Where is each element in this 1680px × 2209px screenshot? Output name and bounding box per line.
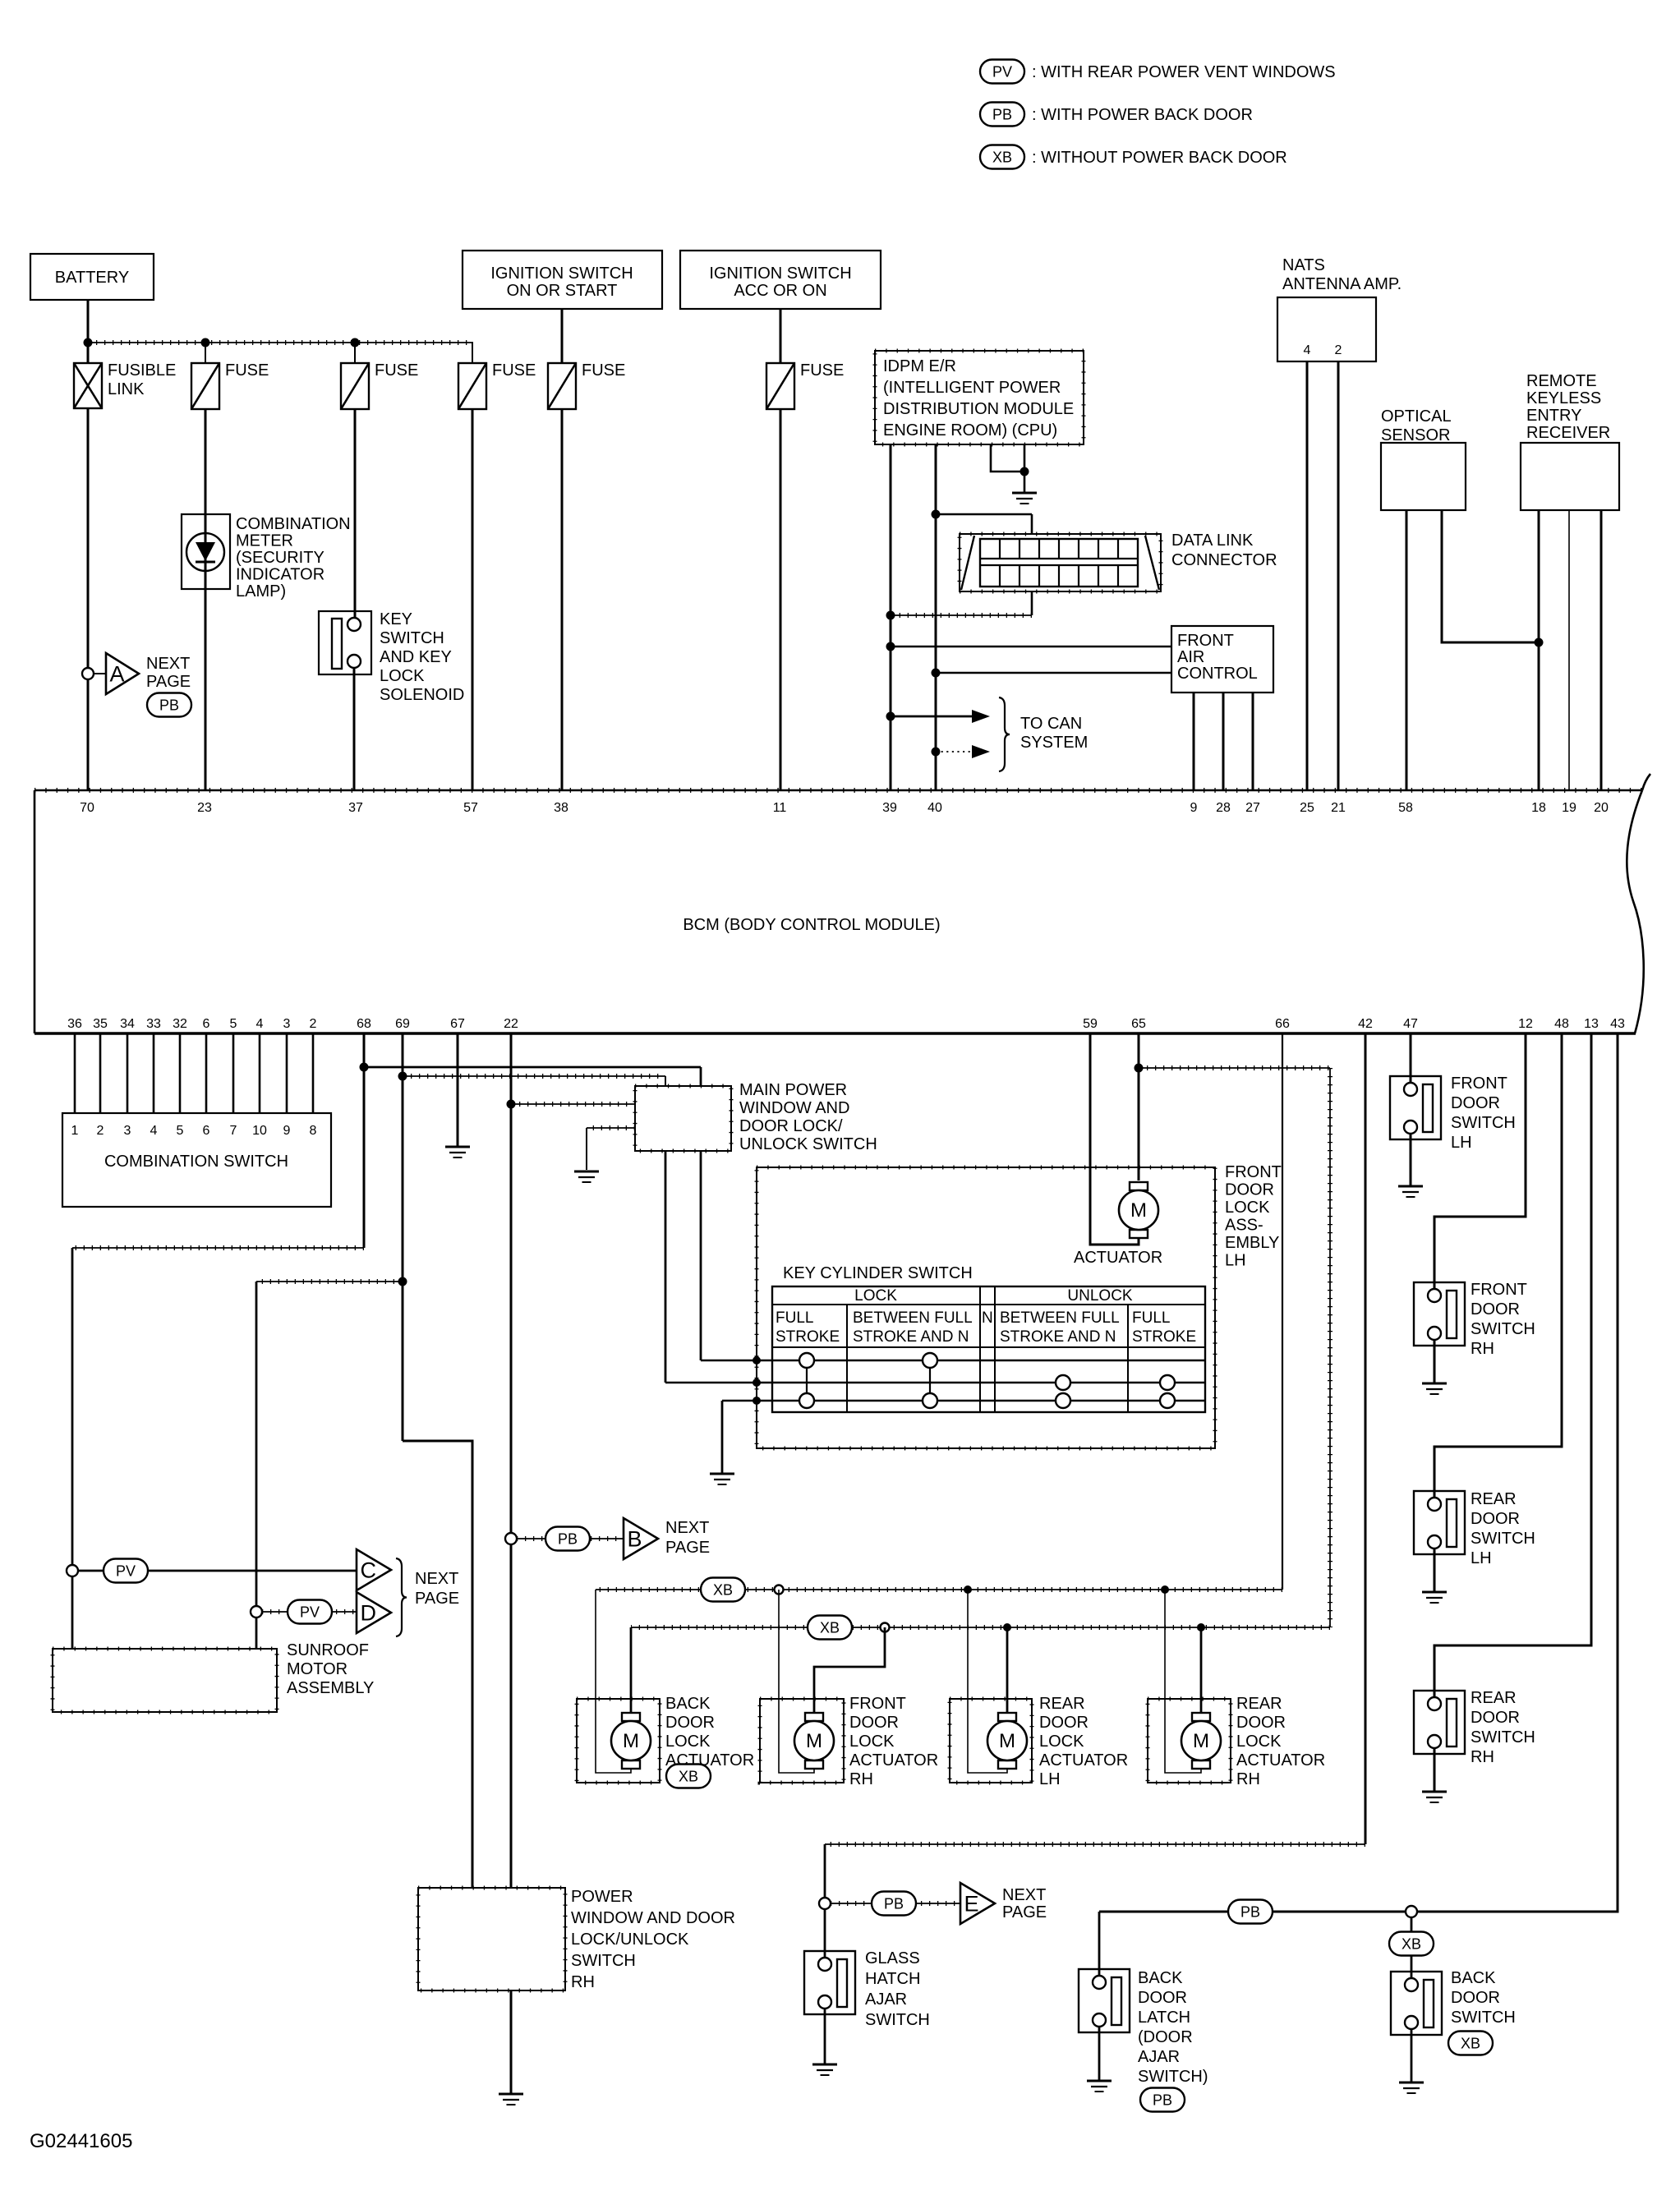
wire net pin68 [363,1033,366,1248]
wire BCM pin43 to back door row [1099,1033,1618,1912]
combination switch box [62,1113,331,1207]
svg-text:4: 4 [1304,343,1311,357]
svg-text:9: 9 [1190,801,1198,815]
wire fuse4 to BCM pin 38 [561,409,564,790]
svg-text:LH: LH [1471,1549,1492,1567]
svg-text:DOOR: DOOR [1471,1300,1520,1318]
wire fuse5 to BCM pin 11 [780,409,782,790]
svg-text:WINDOW AND DOOR: WINDOW AND DOOR [571,1909,735,1927]
data link connector [960,534,1161,591]
wire key cylinder row1 [700,1151,702,1360]
wire rear door switch LH to ground [1434,1549,1436,1592]
svg-text:PB: PB [558,1531,578,1548]
svg-text:LH: LH [1039,1770,1061,1788]
oval PV on D row [288,1600,332,1624]
to can system arrow 2 dashed [936,751,972,752]
svg-text:: WITHOUT POWER BACK DOOR: : WITHOUT POWER BACK DOOR [1032,149,1287,167]
svg-text:KEY CYLINDER SWITCH: KEY CYLINDER SWITCH [783,1264,973,1282]
svg-text:67: 67 [450,1017,465,1031]
oval XB back door switch feed [1389,1932,1434,1956]
wire front air control to BCM pin 28 [1222,693,1225,790]
sunroof motor assembly box [53,1649,277,1712]
wire pin69 branch to sunroof [255,1282,258,1649]
fuse F5 [766,363,794,409]
svg-text:9: 9 [283,1124,291,1138]
svg-text:ASSEMBLY: ASSEMBLY [287,1679,374,1697]
fuse F1 [191,363,219,409]
oval XB back door actuator [666,1765,711,1788]
wire key switch to BCM pin 37 [353,668,356,790]
wire down to back door latch [1098,1912,1101,1977]
wire pin40 to data link connector [932,510,941,519]
svg-text:COMBINATION: COMBINATION [236,515,351,533]
svg-text:MAIN POWER: MAIN POWER [739,1081,847,1099]
svg-text:6: 6 [203,1017,210,1031]
svg-text:10: 10 [252,1124,267,1138]
wire to triangle E [831,1903,960,1904]
fuse F3 [458,363,486,409]
bus wire from battery to fuse row [88,342,473,343]
wire pin65 dotted branch to XB row2 [1139,1067,1330,1069]
svg-text:38: 38 [554,801,568,815]
svg-text:7: 7 [230,1124,237,1138]
svg-text:LAMP): LAMP) [236,582,286,601]
svg-text:DATA LINK: DATA LINK [1171,532,1254,550]
motor actuator front door LH [1130,1182,1148,1190]
svg-text:ENGINE ROOM) (CPU): ENGINE ROOM) (CPU) [883,421,1057,439]
svg-text:SWITCH: SWITCH [1451,2009,1516,2027]
wire data link connector to pin39 line [1031,591,1033,615]
svg-text:(INTELLIGENT POWER: (INTELLIGENT POWER [883,379,1061,397]
battery box [30,254,154,300]
svg-text:RH: RH [571,1973,595,1991]
rear door lock actuator RH box [1148,1699,1231,1783]
svg-text:RH: RH [1471,1748,1494,1766]
rear door lock actuator LH box [950,1699,1032,1783]
key cylinder switch table [772,1286,1205,1412]
junction dots XB row1 [1161,1585,1169,1594]
key cylinder contacts unlock full [1160,1375,1175,1390]
to can system arrow 1 [886,712,895,721]
svg-text:STROKE: STROKE [776,1328,840,1346]
back door latch switch [1079,1969,1130,2032]
wire XB row2 into back door actuator motor top [630,1627,633,1713]
svg-text:4: 4 [150,1124,158,1138]
svg-text:POWER: POWER [571,1888,633,1906]
front air control box [1171,626,1273,693]
svg-text:13: 13 [1584,1017,1599,1031]
svg-text:AJAR: AJAR [1138,2048,1180,2066]
svg-text:NEXT: NEXT [415,1570,458,1588]
svg-text:BETWEEN FULL: BETWEEN FULL [1000,1309,1120,1327]
svg-text:SWITCH: SWITCH [865,2011,930,2029]
wire rear RH actuator top feed [1200,1627,1203,1713]
oval PV on C row [104,1559,148,1583]
svg-text:: WITH POWER BACK DOOR: : WITH POWER BACK DOOR [1032,106,1253,124]
svg-text:OPTICAL: OPTICAL [1381,407,1452,426]
BCM body control module box [35,789,1642,792]
svg-text:LH: LH [1225,1252,1246,1270]
wire pin68 branch down-left to sunroof [71,1248,74,1649]
svg-text:SWITCH: SWITCH [571,1952,636,1970]
ground glass hatch switch [812,2064,837,2066]
ground front door switch RH [1422,1383,1447,1385]
wire RKE to BCM pin 20 [1600,510,1603,790]
junction dot fuse2 bus [351,338,360,347]
ground pin67 [445,1146,470,1148]
rear door switch LH [1414,1491,1465,1554]
wire front air control to BCM pin 27 [1252,693,1254,790]
svg-text:XB: XB [1461,2036,1480,2052]
ignition switch on/start box [463,251,662,309]
svg-text:ON OR START: ON OR START [507,282,618,300]
back door lock actuator box [577,1699,660,1783]
IDPM E/R box [875,351,1084,444]
svg-text:AJAR: AJAR [865,1990,907,2009]
ground key cylinder switch [710,1473,734,1475]
svg-text:METER: METER [236,532,293,550]
front door lock assembly LH box [757,1167,1215,1448]
open circle back door switch tap [1406,1906,1417,1917]
svg-text:BACK: BACK [1138,1969,1183,1987]
svg-text:SWITCH: SWITCH [1471,1530,1535,1548]
triangle A next page [106,653,139,694]
svg-text:SWITCH): SWITCH) [1138,2068,1208,2086]
optical sensor box [1381,443,1466,510]
wire key cylinder row3 from ground [721,1401,724,1474]
svg-text:23: 23 [197,801,212,815]
svg-text:M: M [1193,1730,1209,1752]
motor rear door lock actuator LH [998,1713,1016,1721]
wire fuse2 to key switch [354,409,357,619]
svg-text:BACK: BACK [1451,1969,1496,1987]
ground main power window switch [574,1171,599,1173]
svg-text:57: 57 [463,801,478,815]
svg-text:XB: XB [820,1620,840,1636]
svg-text:PV: PV [992,64,1012,81]
svg-text:12: 12 [1518,1017,1533,1031]
remote keyless entry receiver box [1521,443,1619,510]
svg-text:TO CAN: TO CAN [1020,715,1082,733]
svg-text:HATCH: HATCH [865,1970,920,1988]
wire battery to bus [87,300,90,363]
wire glass hatch switch to ground [824,2009,826,2064]
svg-text:BETWEEN FULL: BETWEEN FULL [853,1309,973,1327]
svg-text:COMBINATION SWITCH: COMBINATION SWITCH [104,1153,288,1171]
svg-text:FUSE: FUSE [375,361,418,380]
svg-text:FRONT: FRONT [849,1695,906,1713]
triangle B next page [624,1518,658,1559]
svg-text:35: 35 [93,1017,108,1031]
svg-text:59: 59 [1083,1017,1098,1031]
svg-text:STROKE AND N: STROKE AND N [1000,1328,1116,1346]
svg-text:PB: PB [884,1896,904,1912]
svg-text:69: 69 [395,1017,410,1031]
wire pin39 to front air control [886,642,895,651]
wire fuse1 to combination meter [205,409,207,790]
svg-text:PB: PB [159,697,179,714]
open circle XB row2 [881,1623,890,1632]
svg-text:NEXT: NEXT [1002,1886,1046,1904]
triangle E next page [960,1883,995,1924]
ground IDPM [1012,492,1037,495]
back door switch [1391,1972,1442,2035]
svg-text:4: 4 [256,1017,264,1031]
junction dots assembly border [753,1356,761,1365]
svg-text:EMBLY: EMBLY [1225,1234,1279,1252]
combination meter box (security indicator lamp) [182,514,230,589]
svg-text:NEXT: NEXT [146,655,190,673]
svg-text:3: 3 [124,1124,131,1138]
svg-text:(DOOR: (DOOR [1138,2028,1193,2046]
svg-text:INDICATOR: INDICATOR [236,566,324,584]
svg-text:LOCK: LOCK [1039,1733,1084,1751]
svg-text:UNLOCK SWITCH: UNLOCK SWITCH [739,1135,877,1153]
svg-text:CONTROL: CONTROL [1177,665,1258,683]
svg-text:LOCK: LOCK [665,1733,711,1751]
wire optical sensor to BCM pin 58 [1406,510,1408,790]
svg-text:2: 2 [1335,343,1342,357]
wire rear LH actuator top feed [1006,1627,1009,1713]
wire BCM pin66 to XB row1 [1282,1033,1283,1590]
svg-text:GLASS: GLASS [865,1949,920,1967]
svg-text:A: A [110,662,125,687]
ground back door switch [1399,2082,1424,2084]
junction dot fuse1 bus [201,338,210,347]
svg-text:STROKE AND N: STROKE AND N [853,1328,969,1346]
svg-text:DOOR: DOOR [849,1714,899,1732]
glass hatch ajar switch [804,1951,855,2014]
svg-text:PB: PB [992,107,1012,123]
svg-text:DISTRIBUTION MODULE: DISTRIBUTION MODULE [883,400,1074,418]
svg-text:XB: XB [992,150,1012,166]
ignition switch acc/on box [680,251,881,309]
wire pin40 to front air control [932,669,941,678]
svg-text:E: E [964,1892,979,1917]
svg-text:DOOR: DOOR [1451,1094,1500,1112]
svg-text:FULL: FULL [776,1309,813,1327]
svg-text:68: 68 [357,1017,371,1031]
svg-text:(SECURITY: (SECURITY [236,549,324,567]
brace next page C D [396,1558,407,1636]
svg-text:DOOR: DOOR [665,1714,715,1732]
svg-text:70: 70 [80,801,94,815]
wire BCM pin12 to front door switch RH [1434,1033,1526,1290]
svg-text:REAR: REAR [1039,1695,1085,1713]
svg-text:19: 19 [1562,801,1576,815]
svg-text:6: 6 [203,1124,210,1138]
wire BCM pin59 to actuator motor [1090,1033,1139,1245]
svg-text:ACTUATOR: ACTUATOR [849,1751,938,1770]
svg-text:DOOR: DOOR [1471,1510,1520,1528]
svg-text:FUSE: FUSE [800,361,844,380]
svg-text:ACTUATOR: ACTUATOR [1074,1249,1162,1267]
wire RKE to BCM pin 19 (thin) [1568,510,1570,790]
svg-text:PV: PV [300,1604,320,1621]
svg-text:LOCK: LOCK [1225,1199,1270,1217]
wire rear door switch RH to ground [1434,1748,1436,1792]
svg-text:FUSE: FUSE [492,361,536,380]
svg-text:M: M [999,1730,1015,1752]
wire optical sensor to keyless receiver node [1442,510,1539,642]
svg-text:65: 65 [1131,1017,1146,1031]
svg-text:IDPM E/R: IDPM E/R [883,357,956,375]
svg-text:39: 39 [882,801,897,815]
svg-text:AND KEY: AND KEY [380,648,452,666]
wire front RH actuator bottom feed [779,1590,814,1773]
wire NATS 2 to BCM pin 21 [1337,361,1340,790]
svg-text:32: 32 [173,1017,187,1031]
open circle B tap [505,1533,517,1544]
svg-text:DOOR: DOOR [1225,1181,1274,1199]
wire power window RH to ground [510,1990,513,2094]
junction dot IDPM ground [1020,467,1029,476]
svg-text:25: 25 [1300,801,1314,815]
svg-text:LOCK: LOCK [849,1733,895,1751]
front door switch RH [1414,1282,1465,1346]
svg-text:33: 33 [146,1017,161,1031]
svg-text:SUNROOF: SUNROOF [287,1641,369,1659]
svg-text:M: M [806,1730,822,1752]
wire bus drop to fuse1 [205,343,206,363]
fuse F4 [548,363,576,409]
svg-text:KEY: KEY [380,610,412,628]
wire fuse3 to BCM pin 57 [472,409,474,790]
svg-text:PAGE: PAGE [665,1539,710,1557]
svg-text:SENSOR: SENSOR [1381,426,1450,444]
wire front RH actuator top feed [814,1627,885,1713]
svg-text:DOOR: DOOR [1471,1709,1520,1727]
oval XB back door switch [1448,2032,1493,2055]
wire pin69 to power window RH [403,1441,472,1888]
IDPM ground stub wires [991,444,1024,472]
svg-text:M: M [1130,1199,1147,1222]
LED symbol security lamp [186,533,224,571]
NATS antenna amp box [1277,297,1376,361]
wire back door latch to ground [1098,2027,1101,2081]
ground rear door switch RH [1422,1791,1447,1793]
wire IDPM to BCM pin 40 [935,444,937,790]
svg-text:58: 58 [1398,801,1413,815]
junction dot optical-rke [1535,638,1544,647]
svg-text:MOTOR: MOTOR [287,1660,348,1678]
fuse F2 [341,363,369,409]
svg-text:47: 47 [1403,1017,1418,1031]
ground rear door switch LH [1422,1591,1447,1594]
svg-text:BACK: BACK [665,1695,711,1713]
svg-text:RECEIVER: RECEIVER [1526,424,1610,442]
wire net pin22 [510,1033,513,1888]
svg-text:SWITCH: SWITCH [1471,1728,1535,1746]
svg-text:21: 21 [1331,801,1346,815]
svg-text:LOCK: LOCK [1236,1733,1282,1751]
svg-text:B: B [628,1527,642,1552]
wire bus corner drop to fuse3 [472,343,473,363]
svg-text:FRONT: FRONT [1451,1075,1507,1093]
svg-text:RH: RH [1471,1340,1494,1358]
oval PB on E row [872,1892,916,1916]
wire pin67 to ground [457,1033,459,1147]
svg-text:ASS-: ASS- [1225,1217,1263,1235]
triangle C next page [357,1549,391,1590]
wire to triangle C [78,1570,357,1572]
wire to triangle D [262,1611,357,1613]
oval XB row1 [701,1578,745,1602]
svg-text:FULL: FULL [1132,1309,1170,1327]
open circle XB row1 [775,1585,784,1595]
svg-text:SYSTEM: SYSTEM [1020,734,1088,752]
svg-text:28: 28 [1216,801,1231,815]
svg-text:REAR: REAR [1471,1689,1517,1707]
wire fusible link down to BCM pin 70 [87,408,90,790]
rear door switch RH [1414,1691,1465,1754]
svg-text:LOCK: LOCK [380,667,425,685]
svg-text:C: C [361,1558,377,1583]
svg-text:1: 1 [71,1124,79,1138]
svg-text:D: D [361,1601,377,1626]
front door lock actuator RH box [760,1699,844,1783]
wire bus drop to fuse2 [354,343,356,363]
svg-text:DOOR: DOOR [1039,1714,1089,1732]
svg-text:CONNECTOR: CONNECTOR [1171,551,1277,569]
wire front air control to BCM pin 9 [1193,693,1195,790]
svg-text:DOOR LOCK/: DOOR LOCK/ [739,1117,843,1135]
svg-text:PAGE: PAGE [146,673,191,691]
svg-text:37: 37 [348,801,363,815]
svg-text:REAR: REAR [1236,1695,1282,1713]
wire NATS 4 to BCM pin 25 [1306,361,1309,790]
svg-text:8: 8 [310,1124,317,1138]
key cylinder contacts unlock between [1056,1375,1070,1390]
svg-text:42: 42 [1358,1017,1373,1031]
svg-text:SWITCH: SWITCH [1451,1114,1516,1132]
svg-text:RH: RH [849,1770,873,1788]
svg-text:ACTUATOR: ACTUATOR [1039,1751,1128,1770]
svg-text:NEXT: NEXT [665,1519,709,1537]
wire back door switch to ground [1411,2029,1413,2082]
svg-text:: WITH REAR POWER VENT WINDOWS: : WITH REAR POWER VENT WINDOWS [1032,63,1336,81]
open circle D tap [251,1606,262,1618]
wire BCM pin48 to rear door switch LH [1434,1033,1562,1498]
junction dot dlc-pin39 [886,611,895,620]
svg-text:IGNITION SWITCH: IGNITION SWITCH [490,265,633,283]
svg-text:PV: PV [116,1563,136,1580]
svg-text:20: 20 [1594,801,1609,815]
svg-text:LINK: LINK [108,380,145,398]
wire key cylinder row2 [665,1151,667,1383]
main power window switch ground wire [587,1127,635,1129]
wire rear RH actuator bottom feed [1165,1590,1201,1773]
oval PB back door latch [1140,2088,1185,2112]
svg-text:IGNITION SWITCH: IGNITION SWITCH [709,265,851,283]
key cylinder contacts lock between [929,1360,931,1401]
motor rear door lock actuator RH [1192,1713,1210,1721]
triangle D next page [357,1592,391,1633]
svg-text:LOCK/UNLOCK: LOCK/UNLOCK [571,1931,689,1949]
svg-text:PAGE: PAGE [415,1590,459,1608]
wire BCM pin47 to front door switch LH [1410,1033,1412,1084]
svg-text:LATCH: LATCH [1138,2009,1190,2027]
svg-text:N: N [982,1309,993,1327]
wires BCM to combination switch [74,1033,76,1113]
wire front door switch LH to ground [1410,1134,1412,1186]
svg-text:PAGE: PAGE [1002,1903,1047,1921]
svg-text:48: 48 [1554,1017,1569,1031]
ground front door switch LH [1398,1185,1423,1188]
svg-text:PB: PB [1153,2092,1172,2109]
ground power window RH [499,2093,523,2096]
svg-text:22: 22 [504,1017,518,1031]
